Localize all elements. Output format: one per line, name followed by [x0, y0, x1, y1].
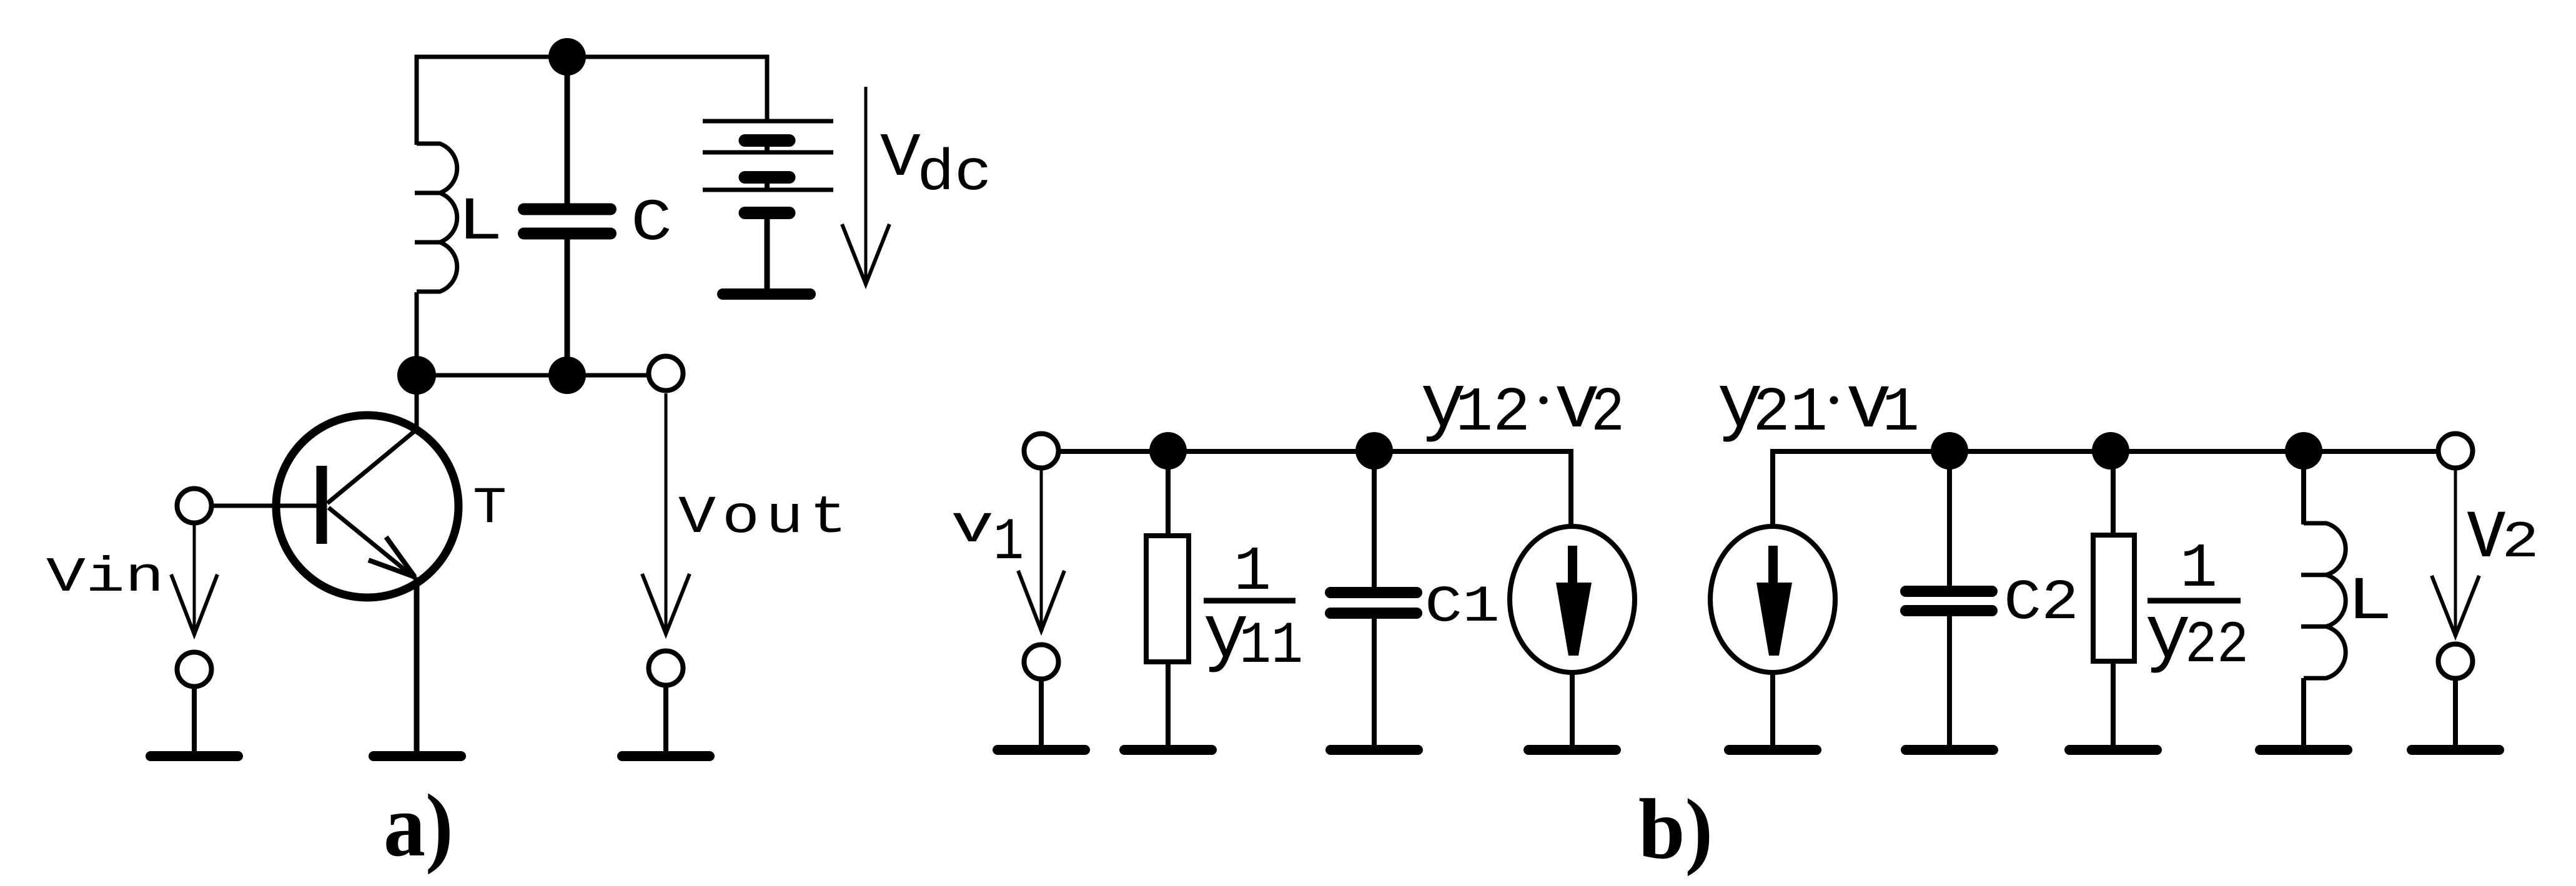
terminal Vout bottom	[649, 651, 683, 686]
wire input bus	[1059, 449, 1571, 454]
label y21.v1 subscript 1	[1882, 378, 1920, 449]
transistor T emitter arrow barb 1	[386, 537, 415, 577]
node bus dot 1 (1/y11)	[1149, 432, 1187, 470]
terminal Vout top	[649, 357, 683, 391]
transistor T circle	[276, 415, 458, 598]
label b)	[1638, 782, 1713, 877]
wire collector vertical	[415, 375, 419, 431]
ground y12 source	[1528, 745, 1616, 755]
wire C2 top	[1947, 451, 1952, 586]
ground emitter	[374, 751, 461, 761]
battery V_dc plate short 3	[745, 207, 790, 219]
wire inductor L top	[2301, 451, 2306, 524]
label 1/y11 y	[1203, 593, 1249, 679]
wire inductor L bottom	[2301, 678, 2306, 750]
arrow Vout head	[642, 574, 690, 634]
arrow v2 head	[2432, 576, 2479, 636]
ground 1/y11	[1124, 745, 1212, 755]
current source y21.v1 arrow	[1756, 546, 1792, 656]
svg-text:C1: C1	[1425, 577, 1500, 636]
wire v2 stem	[2453, 679, 2458, 750]
fraction bar 1/y22	[2147, 598, 2241, 604]
label y21.v1 v	[1846, 363, 1891, 450]
label y12.v2 y	[1420, 362, 1466, 449]
current source y12.v2 ellipse	[1510, 526, 1635, 672]
label y12.v2 subscript 12	[1455, 378, 1530, 449]
inductor L	[415, 144, 457, 292]
node junction row mid	[548, 357, 586, 394]
svg-text:Vin: Vin	[46, 550, 164, 606]
svg-text:C2: C2	[2004, 571, 2079, 636]
label v1 subscript 1	[993, 509, 1024, 576]
capacitor C2 bottom plate	[1906, 605, 1992, 616]
svg-text:21: 21	[1753, 378, 1828, 449]
label y21.v1 subscript 21	[1753, 378, 1828, 449]
svg-text:12: 12	[1455, 378, 1530, 449]
arrow Vin line	[193, 523, 196, 632]
label y21.v1 cdot	[1830, 396, 1838, 405]
transistor T emitter arrow barb 2	[369, 560, 415, 577]
label Vout	[678, 488, 853, 548]
node junction row left (collector node)	[397, 356, 436, 395]
label L	[457, 189, 503, 257]
arrow V_dc head	[842, 224, 889, 284]
resistor 1/y11	[1146, 536, 1189, 662]
wire emitter down	[414, 578, 420, 751]
terminal Vin (base)	[177, 489, 212, 523]
svg-text:a): a)	[384, 776, 453, 875]
node bus dot 4 (1/y22)	[2092, 432, 2129, 470]
battery V_dc plate short 1	[745, 134, 790, 147]
wire y21 source bottom	[1770, 672, 1775, 750]
capacitor C1 bottom plate	[1330, 608, 1417, 619]
ground C2	[1906, 745, 1993, 755]
wire L bottom to node	[415, 292, 419, 375]
arrow Vin head	[171, 574, 217, 634]
wire y12 source bottom	[1570, 672, 1575, 750]
label v1 v	[951, 498, 994, 558]
svg-text:2: 2	[2502, 514, 2539, 573]
label C	[631, 190, 672, 257]
arrow V_dc line	[864, 87, 868, 282]
svg-text:2: 2	[1591, 378, 1625, 449]
wire Vin terminal stem	[192, 686, 197, 751]
label y12.v2 v	[1554, 363, 1600, 450]
battery V_dc plate long 3	[703, 188, 833, 192]
wire C1 top	[1372, 451, 1377, 588]
inductor L (output)	[2301, 523, 2346, 678]
label Vin	[46, 550, 164, 606]
node bus dot 2 (C1)	[1355, 432, 1393, 470]
wire node row	[417, 373, 648, 378]
battery V_dc plate long 2	[703, 150, 833, 155]
label 1/y22 numerator	[2180, 534, 2217, 605]
terminal v1 bottom	[1024, 645, 1059, 679]
terminal v1	[1024, 434, 1059, 468]
label V_dc V	[880, 124, 921, 193]
ground Vout	[622, 751, 710, 761]
arrow Vout line	[665, 393, 668, 632]
ground C1	[1330, 745, 1418, 755]
arrow v1 line	[1040, 470, 1043, 628]
ground v1	[998, 745, 1085, 755]
svg-text:1: 1	[993, 509, 1024, 576]
battery V_dc connector 1	[765, 142, 770, 154]
terminal v2 bottom	[2439, 644, 2473, 679]
label V_dc dc subscript	[917, 141, 992, 207]
capacitor C1 top plate	[1330, 587, 1417, 598]
capacitor C top plate	[524, 204, 611, 215]
wire resistor 1/y22 top	[2111, 451, 2116, 535]
node junction top (collector supply)	[548, 38, 586, 76]
capacitor C2 top plate	[1906, 586, 1992, 597]
wire Vout terminal stem	[663, 685, 668, 751]
label 1/y11 numerator	[1234, 538, 1271, 608]
label y21.v1 y	[1717, 362, 1763, 449]
svg-text:Vout: Vout	[678, 488, 853, 548]
label C2	[2004, 571, 2079, 636]
label 1/y22 subscript 22	[2185, 613, 2249, 680]
svg-text:dc: dc	[917, 141, 992, 207]
svg-text:V: V	[880, 124, 921, 193]
resistor 1/y22	[2093, 535, 2134, 661]
label v2 subscript 2	[2502, 514, 2539, 573]
wire C2 bottom	[1947, 616, 1952, 750]
label y12.v2 cdot	[1540, 396, 1548, 405]
svg-text:y: y	[2145, 593, 2191, 680]
wire resistor 1/y11 top	[1166, 451, 1171, 536]
wire y12 source drop	[1568, 449, 1573, 526]
svg-text:11: 11	[1239, 613, 1303, 681]
ground L	[2260, 745, 2347, 755]
battery V_dc plate long 1	[703, 119, 833, 124]
svg-text:T: T	[473, 479, 507, 538]
node bus dot 3 (C2)	[1931, 432, 1968, 470]
label a)	[384, 776, 453, 875]
terminal v2	[2439, 434, 2473, 468]
capacitor C bottom plate	[524, 228, 611, 240]
label 1/y11 subscript 11	[1239, 613, 1303, 681]
node bus dot 5 (L)	[2285, 432, 2322, 470]
label L (output)	[2347, 568, 2392, 637]
label T	[473, 479, 507, 538]
wire resistor 1/y22 bottom	[2111, 661, 2116, 750]
transistor T base bar	[317, 466, 327, 544]
svg-text:L: L	[457, 189, 503, 257]
ground Vin	[151, 751, 238, 761]
battery V_dc connector 2	[765, 179, 770, 192]
wire resistor 1/y11 bottom	[1166, 662, 1171, 750]
fraction bar 1/y11	[1204, 598, 1295, 604]
svg-text:22: 22	[2185, 613, 2249, 680]
transistor T collector diagonal	[327, 429, 417, 503]
transistor T emitter diagonal	[329, 508, 417, 579]
battery V_dc plate short 2	[745, 171, 790, 184]
wire capacitor C top	[565, 57, 570, 206]
current source y12.v2 arrow	[1556, 546, 1592, 656]
svg-text:b): b)	[1638, 782, 1713, 877]
current source y21.v1 ellipse	[1710, 526, 1835, 672]
arrow v1 head	[1018, 571, 1064, 631]
battery V_dc stem	[765, 215, 770, 290]
svg-text:1: 1	[1882, 378, 1920, 449]
ground battery	[723, 288, 810, 300]
terminal Vin bottom	[177, 652, 212, 687]
ground y21 source	[1729, 745, 1816, 755]
wire C1 bottom	[1372, 618, 1377, 750]
ground v2	[2412, 745, 2499, 755]
label v2 v	[2465, 486, 2508, 582]
svg-text:C: C	[631, 190, 672, 257]
ground 1/y22	[2069, 745, 2157, 755]
label C1	[1425, 577, 1500, 636]
wire y21 source drop and output bus	[1773, 451, 2436, 526]
wire base (to transistor)	[211, 504, 317, 508]
label 1/y22 y	[2145, 593, 2191, 680]
wire v1 stem	[1039, 679, 1044, 750]
svg-text:L: L	[2347, 568, 2392, 637]
arrow v2 line	[2454, 470, 2457, 633]
svg-text:v: v	[951, 498, 994, 558]
wire capacitor C bottom	[565, 237, 570, 375]
label y12.v2 subscript 2	[1591, 378, 1625, 449]
wire top bus (L/C/battery top)	[417, 57, 767, 145]
